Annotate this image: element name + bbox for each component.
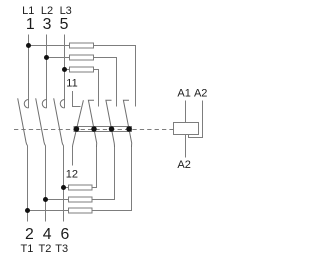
svg-text:T2: T2 bbox=[38, 243, 51, 255]
svg-text:1: 1 bbox=[26, 16, 35, 33]
svg-text:T1: T1 bbox=[20, 243, 33, 255]
svg-text:L1: L1 bbox=[22, 5, 34, 17]
svg-text:T3: T3 bbox=[55, 243, 68, 255]
svg-text:L2: L2 bbox=[41, 5, 53, 17]
svg-text:12: 12 bbox=[66, 169, 78, 181]
svg-text:3: 3 bbox=[43, 16, 52, 33]
svg-text:L3: L3 bbox=[60, 5, 72, 17]
svg-text:4: 4 bbox=[43, 226, 52, 243]
svg-text:A2: A2 bbox=[177, 159, 190, 171]
svg-text:A2: A2 bbox=[194, 87, 207, 99]
svg-text:6: 6 bbox=[61, 226, 70, 243]
svg-text:11: 11 bbox=[66, 77, 77, 89]
svg-text:A1: A1 bbox=[177, 87, 190, 99]
svg-text:2: 2 bbox=[25, 226, 34, 243]
svg-text:5: 5 bbox=[60, 16, 69, 33]
